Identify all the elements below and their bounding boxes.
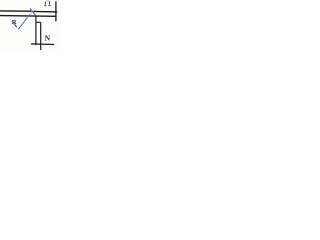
label ohm (top, cropped): left stroke	[44, 2, 46, 5]
phase line R (top rail, right part after switch break)	[34, 10, 58, 13]
label ohm: faint top arc	[45, 0, 49, 3]
switch blade 2 (blue diagonal to lower left)	[18, 18, 27, 29]
switch blade 2 end tick	[14, 24, 17, 28]
wire stub V2-V3	[36, 21, 41, 23]
phase line R (top rail, left part before switch break)	[0, 10, 31, 12]
svg-text:R: R	[12, 19, 17, 26]
label ohm: right foot	[48, 5, 50, 7]
switch blade 1 (blue, bridges top-rail break down to V2 junction)	[30, 8, 36, 15]
neutral line N (bottom horizontal)	[31, 43, 54, 46]
label ohm: left foot	[44, 5, 46, 7]
wire V3 (vertical to bottom edge)	[40, 22, 42, 50]
wire V1 (right vertical drop)	[55, 1, 57, 21]
wire V2 (vertical from lower rail)	[35, 15, 37, 45]
switch blade 2 upper faint part	[27, 12, 32, 18]
label ohm: right stroke	[48, 1, 50, 4]
svg-text:N: N	[45, 34, 51, 43]
second line (lower rail)	[0, 15, 57, 18]
